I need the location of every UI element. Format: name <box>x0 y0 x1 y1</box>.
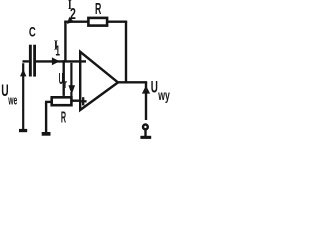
svg-text:r: r <box>64 78 67 92</box>
svg-text:wy: wy <box>158 88 171 104</box>
svg-text:C: C <box>29 24 36 40</box>
svg-text:U: U <box>151 78 158 96</box>
svg-text:R: R <box>95 0 102 18</box>
svg-text:we: we <box>8 94 18 108</box>
svg-text:U: U <box>59 70 64 88</box>
svg-text:U: U <box>1 81 8 99</box>
svg-text:R: R <box>61 109 66 127</box>
svg-text:2: 2 <box>70 5 76 23</box>
svg-text:1: 1 <box>55 42 60 59</box>
